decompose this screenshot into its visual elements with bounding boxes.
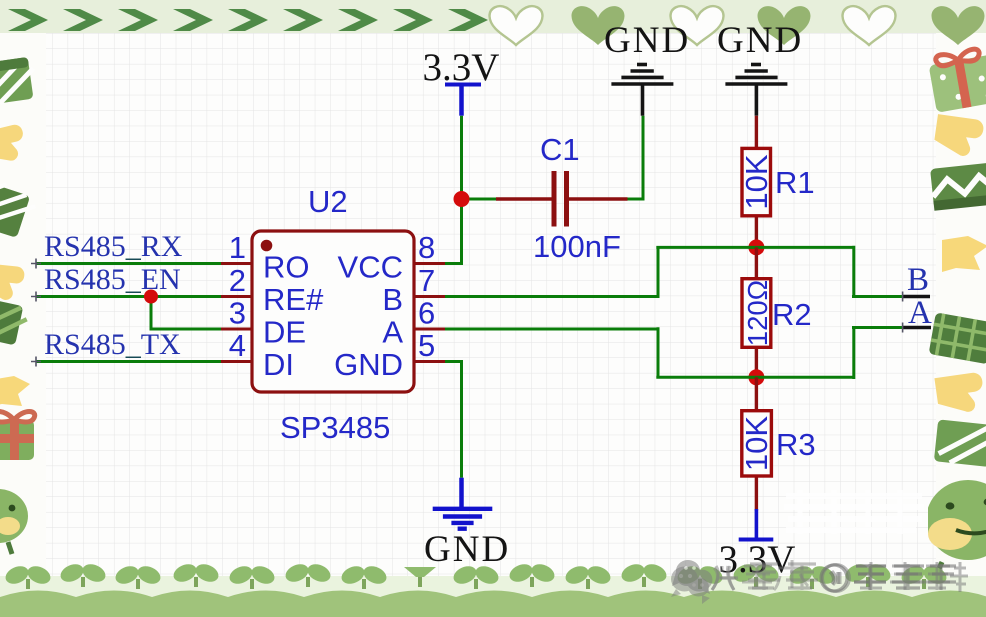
svg-text:DE: DE — [263, 315, 306, 350]
power flag 3.3V bottom — [739, 509, 774, 540]
pin stubs right — [414, 264, 445, 362]
wire EN branch to pin 3 — [151, 297, 221, 330]
svg-text:U2: U2 — [308, 184, 348, 219]
svg-text:RS485_RX: RS485_RX — [44, 230, 183, 263]
pin name VCC — [338, 250, 403, 285]
value 100nF — [533, 229, 621, 264]
pin number 2 — [229, 263, 246, 298]
ground GND bottom earth — [433, 478, 493, 529]
pin name DI — [263, 347, 294, 382]
label C1 — [540, 132, 580, 167]
net label B — [907, 262, 929, 298]
net label RS485_EN — [44, 263, 181, 296]
label R1 — [775, 165, 815, 200]
resistor R2 — [742, 247, 773, 377]
pin number 3 — [229, 296, 246, 331]
pin number 7 — [418, 263, 435, 298]
svg-text:6: 6 — [418, 296, 435, 331]
svg-text:GND: GND — [604, 20, 690, 61]
wire A net bottom rail — [445, 327, 903, 379]
wire RS485_TX to pin 4 — [31, 357, 221, 367]
wire 3.3V to VCC pin 8 — [445, 116, 463, 264]
net label GND bottom — [424, 529, 510, 570]
label R2 — [772, 297, 812, 332]
pin number 8 — [418, 230, 435, 265]
svg-text:10K: 10K — [739, 154, 774, 209]
resistor R1 — [739, 116, 774, 248]
net label GND top 1 — [604, 20, 690, 61]
IC U2 body — [252, 231, 414, 392]
svg-text:R1: R1 — [775, 165, 815, 200]
junction R1/R2 node — [748, 239, 764, 255]
net label A — [908, 295, 932, 331]
svg-text:1: 1 — [229, 230, 246, 265]
net label 3.3V top — [423, 46, 500, 89]
svg-text:B: B — [907, 262, 929, 298]
junction EN/DE — [144, 290, 158, 304]
wire C1 to GND — [628, 116, 644, 201]
pin number 6 — [418, 296, 435, 331]
svg-text:100nF: 100nF — [533, 229, 621, 264]
wire GND pin 5 drop — [445, 362, 463, 478]
pin name RE# — [263, 282, 324, 317]
svg-text:R3: R3 — [776, 427, 816, 462]
svg-text:8: 8 — [418, 230, 435, 265]
svg-text:10K: 10K — [739, 416, 774, 471]
pin number 5 — [418, 328, 435, 363]
pin number 4 — [229, 328, 246, 363]
net label GND top 2 — [717, 20, 803, 61]
svg-text:7: 7 — [418, 263, 435, 298]
svg-text:4: 4 — [229, 328, 246, 363]
pin name A — [382, 315, 403, 350]
pin name B — [382, 282, 403, 317]
ground GND top 2 — [725, 65, 787, 116]
label R3 — [776, 427, 816, 462]
svg-text:RO: RO — [263, 250, 310, 285]
svg-text:B: B — [382, 282, 403, 317]
svg-text:C1: C1 — [540, 132, 580, 167]
wire VCC node to C1 — [462, 198, 497, 201]
junction R2/R3 node — [748, 369, 764, 385]
svg-text:2: 2 — [229, 263, 246, 298]
net label RS485_TX — [44, 328, 181, 361]
svg-text:VCC: VCC — [338, 250, 403, 285]
svg-text:3.3V: 3.3V — [423, 46, 500, 89]
svg-text:GND: GND — [424, 529, 510, 570]
junction VCC node — [454, 191, 470, 207]
svg-text:DI: DI — [263, 347, 294, 382]
net label RS485_RX — [44, 230, 183, 263]
net label 3.3V bottom — [719, 538, 796, 581]
capacitor C1 — [496, 171, 628, 227]
port B line — [903, 292, 930, 302]
wire B net top rail — [445, 246, 903, 298]
pin name GND — [334, 347, 403, 382]
svg-text:R2: R2 — [772, 297, 812, 332]
wire RS485_EN to pin 2 — [31, 292, 221, 302]
pin name DE — [263, 315, 306, 350]
label SP3485 — [280, 410, 390, 445]
svg-text:5: 5 — [418, 328, 435, 363]
power flag 3.3V top — [445, 85, 481, 116]
resistor R3 — [739, 377, 774, 510]
svg-text:120Ω: 120Ω — [742, 280, 773, 346]
svg-text:3: 3 — [229, 296, 246, 331]
svg-text:RS485_EN: RS485_EN — [44, 263, 181, 296]
svg-text:GND: GND — [717, 20, 803, 61]
svg-text:A: A — [382, 315, 403, 350]
svg-text:GND: GND — [334, 347, 403, 382]
svg-text:SP3485: SP3485 — [280, 410, 390, 445]
svg-text:A: A — [908, 295, 932, 331]
label U2 — [308, 184, 348, 219]
ground GND top 1 — [611, 65, 673, 116]
port A line — [903, 323, 931, 333]
pin number 1 — [229, 230, 246, 265]
op-amp U1 pin stubs left — [221, 264, 252, 362]
svg-text:RS485_TX: RS485_TX — [44, 328, 181, 361]
svg-text:RE#: RE# — [263, 282, 324, 317]
pin name RO — [263, 250, 310, 285]
wire RS485_RX to pin 1 — [31, 259, 221, 269]
